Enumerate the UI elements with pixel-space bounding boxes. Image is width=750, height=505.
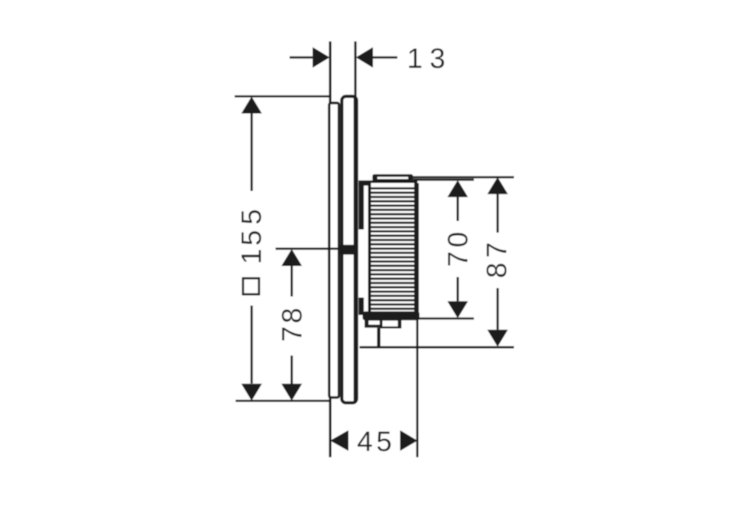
extension line 70 bottom [416, 317, 474, 319]
label 45 [358, 432, 372, 451]
stub bottom [359, 298, 364, 316]
label 70 [448, 233, 468, 266]
dim 87 [487, 177, 508, 194]
dim 45 [330, 430, 348, 451]
label 78 [282, 309, 302, 340]
extension line 87 bottom [360, 346, 515, 348]
handle body [368, 183, 417, 314]
extension line 155 top [235, 95, 332, 97]
plate [342, 96, 357, 402]
ribs [371, 187, 415, 310]
dim 78 [281, 249, 302, 266]
dim 13 [290, 56, 313, 58]
dim 70 [447, 180, 468, 197]
extension line 45 right [416, 313, 418, 457]
handle top cap [372, 174, 413, 181]
extension line 70 top [413, 179, 474, 181]
extension line 78 top [276, 248, 341, 250]
wall line [329, 41, 332, 457]
extension line 87 top [411, 176, 514, 178]
label 87 [487, 244, 507, 277]
label 13 [409, 48, 421, 67]
flange B [380, 319, 402, 329]
label 155 [241, 210, 261, 262]
flange A [365, 319, 382, 328]
plate front edge [354, 97, 356, 403]
notch [340, 245, 358, 255]
bottom cap [363, 311, 420, 320]
handle collar [359, 180, 418, 185]
extension line 155/78 bottom [236, 400, 331, 402]
dim 155 [241, 97, 262, 114]
sleeve [329, 103, 339, 398]
extension line 13 right [354, 41, 356, 97]
stub top [359, 183, 364, 230]
drop bar [377, 328, 380, 348]
